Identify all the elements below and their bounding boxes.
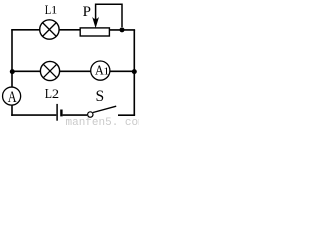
rheostat P body bbox=[80, 28, 109, 36]
battery cell bbox=[57, 104, 61, 121]
label L1 bbox=[45, 2, 58, 17]
wire L2 to ammeter A1 bbox=[60, 70, 92, 72]
wire left vertical (top corner to ammeter A) bbox=[11, 30, 13, 88]
wire L1 to rheostat bbox=[59, 29, 80, 31]
node wiper junction bbox=[120, 27, 125, 32]
svg-text:1: 1 bbox=[103, 66, 109, 77]
rheostat wiper arrow bbox=[92, 4, 122, 28]
wire bottom-left to battery bbox=[11, 114, 56, 116]
wire battery to switch bbox=[63, 114, 88, 116]
ammeter A bbox=[3, 87, 21, 107]
wire right vertical bbox=[133, 30, 135, 115]
svg-text:P: P bbox=[83, 4, 91, 20]
node left (middle branch) bbox=[10, 69, 15, 74]
svg-text:manfen5. com: manfen5. com bbox=[66, 117, 140, 125]
svg-text:1: 1 bbox=[51, 3, 57, 16]
lamp L1 bbox=[40, 20, 59, 39]
wire A1 to right node bbox=[110, 70, 135, 72]
svg-text:S: S bbox=[96, 88, 105, 105]
svg-text:A: A bbox=[8, 89, 18, 107]
node right (middle branch) bbox=[132, 69, 137, 74]
wire top-left horizontal bbox=[11, 29, 40, 31]
ammeter A1 bbox=[91, 61, 110, 80]
lamp L2 bbox=[40, 61, 59, 80]
wire switch to bottom-right corner bbox=[118, 114, 135, 116]
wire rheostat right to top-right corner bbox=[110, 29, 136, 31]
wire left node to lamp L2 bbox=[12, 70, 41, 72]
switch S bbox=[88, 106, 117, 117]
svg-text:2: 2 bbox=[52, 87, 59, 101]
label L2 bbox=[45, 85, 59, 101]
wire ammeter A to bottom-left corner bbox=[11, 105, 13, 116]
